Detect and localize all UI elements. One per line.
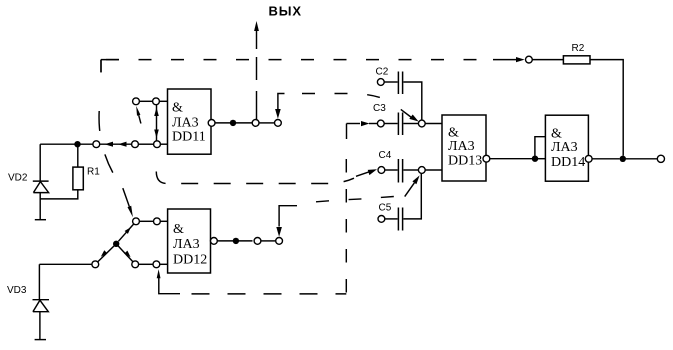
svg-text:ЛА3: ЛА3 <box>551 140 578 155</box>
svg-text:ЛА3: ЛА3 <box>173 237 200 252</box>
svg-text:DD12: DD12 <box>173 253 207 268</box>
svg-text:C4: C4 <box>379 150 392 161</box>
svg-text:ВЫХ: ВЫХ <box>269 4 303 19</box>
svg-text:C2: C2 <box>376 67 389 78</box>
svg-text:&: & <box>173 222 184 237</box>
svg-text:ЛА3: ЛА3 <box>172 116 199 131</box>
svg-text:C5: C5 <box>379 203 392 214</box>
svg-text:R2: R2 <box>572 43 585 54</box>
svg-text:DD13: DD13 <box>448 154 482 169</box>
svg-text:R1: R1 <box>87 167 100 178</box>
svg-text:VD3: VD3 <box>7 285 27 296</box>
svg-text:VD2: VD2 <box>8 173 28 184</box>
svg-text:C3: C3 <box>373 103 386 114</box>
svg-text:DD14: DD14 <box>551 155 585 170</box>
svg-text:DD11: DD11 <box>172 130 206 145</box>
svg-text:&: & <box>172 101 183 116</box>
svg-text:ЛА3: ЛА3 <box>448 139 475 154</box>
